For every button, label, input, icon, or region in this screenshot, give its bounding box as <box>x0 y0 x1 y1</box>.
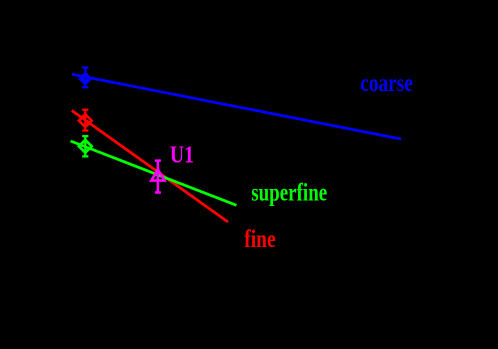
wire: green fit line (superfine) <box>71 141 237 205</box>
svg-text:coarse: coarse <box>360 70 413 97</box>
node: blue filled diamond (coarse data point) <box>78 71 92 85</box>
node: blue error bar <box>82 68 88 88</box>
wire: red fit line (fine) <box>72 111 228 223</box>
svg-text:fine: fine <box>244 226 276 253</box>
node: green error bar <box>82 136 88 156</box>
svg-text:superfine: superfine <box>251 180 327 207</box>
wire: blue fit line (coarse) <box>72 74 401 139</box>
node: red error bar <box>82 110 88 131</box>
node: magenta error bar (U1 point) <box>155 161 161 193</box>
node: red open diamond (fine data point) <box>79 114 92 127</box>
node: magenta open triangle (U1 data point) <box>151 170 164 181</box>
svg-text:U1: U1 <box>170 143 194 169</box>
node: green open diamond (superfine data point) <box>79 140 92 153</box>
